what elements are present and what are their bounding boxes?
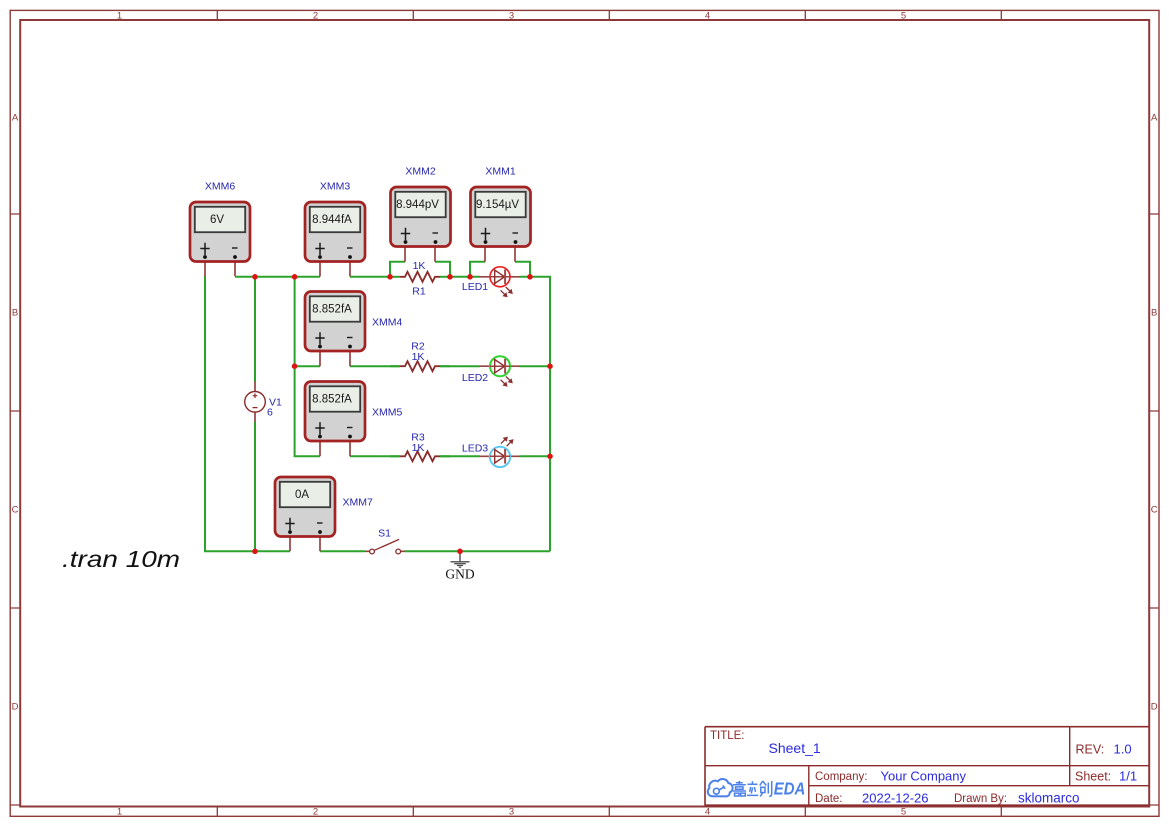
svg-text:B: B (12, 308, 18, 319)
multimeter XMM1 (471, 187, 531, 247)
svg-text:8.944pV: 8.944pV (396, 199, 439, 211)
svg-text:REV:: REV: (1076, 743, 1105, 757)
wire XMM2 plus loop (390, 262, 405, 277)
multimeter XMM5 (305, 382, 365, 442)
svg-text:LED1: LED1 (462, 281, 488, 293)
multimeter XMM4 (305, 292, 365, 352)
junction right bus / row3 (547, 454, 553, 460)
svg-text:3: 3 (509, 11, 514, 22)
junction LED1 right pin (527, 274, 533, 280)
wire XMM2 pins (405, 247, 435, 262)
wire XMM5 pins (320, 441, 350, 456)
resistor R3 (390, 451, 450, 461)
svg-text:C: C (1151, 505, 1158, 516)
svg-text:1.0: 1.0 (1114, 742, 1132, 757)
resistor R2 (390, 361, 450, 371)
svg-text:S1: S1 (378, 528, 391, 540)
wire top bus left (235, 276, 320, 278)
svg-text:1K: 1K (413, 260, 426, 272)
svg-text:TITLE:: TITLE: (710, 730, 745, 742)
svg-text:4: 4 (705, 807, 710, 818)
svg-text:XMM6: XMM6 (205, 181, 235, 193)
svg-text:5: 5 (901, 807, 906, 818)
wire bottom bus seg1 (255, 550, 290, 552)
svg-text:0A: 0A (295, 489, 309, 501)
junction GND / bottom bus (457, 549, 463, 555)
wire bottom bus seg2 (320, 550, 365, 552)
junction R1 right pin (447, 274, 453, 280)
svg-text:XMM7: XMM7 (343, 497, 373, 509)
svg-text:5: 5 (901, 11, 906, 22)
wire left rail (205, 276, 255, 552)
svg-text:LED2: LED2 (462, 372, 488, 384)
svg-text:D: D (12, 702, 19, 713)
svg-text:Sheet:: Sheet: (1075, 770, 1111, 784)
svg-text:sklomarco: sklomarco (1018, 791, 1080, 806)
wire mid rail (295, 277, 320, 457)
svg-text:3: 3 (509, 807, 514, 818)
wire top bus mid (350, 276, 390, 278)
svg-text:GND: GND (445, 567, 474, 582)
svg-text:4: 4 (705, 11, 710, 22)
svg-text:R1: R1 (412, 286, 426, 298)
svg-text:D: D (1151, 702, 1158, 713)
svg-text:6: 6 (267, 407, 273, 419)
svg-text:C: C (12, 505, 19, 516)
wire LED3 to bus (520, 455, 551, 457)
svg-text:A: A (12, 113, 19, 124)
svg-text:XMM4: XMM4 (372, 317, 402, 329)
svg-text:Drawn By:: Drawn By: (954, 793, 1007, 805)
wire row3 mid (350, 455, 400, 457)
junction V1 top / bus (252, 274, 258, 280)
junction mid rail / row2 (292, 363, 298, 369)
multimeter XMM6 (190, 202, 250, 262)
wire S1 pins (365, 550, 405, 552)
svg-text:B: B (1151, 308, 1157, 319)
svg-text:Company:: Company: (815, 771, 867, 783)
wire row2 left (295, 365, 320, 367)
wire XMM3 pins (320, 262, 350, 277)
wire XMM1 plus loop (470, 262, 485, 277)
svg-text:LED3: LED3 (462, 443, 488, 455)
wire LED3 pins (480, 455, 520, 457)
wire XMM1 minus loop (515, 262, 530, 277)
wire LED2 to bus (520, 365, 551, 367)
svg-text:Your Company: Your Company (881, 769, 967, 784)
wire row3 right (440, 455, 480, 457)
svg-text:9.154µV: 9.154µV (476, 199, 519, 211)
logo cloud (708, 779, 733, 796)
svg-text:.tran 10m: .tran 10m (62, 546, 180, 572)
junction V1 bottom / bottom bus (252, 549, 258, 555)
wire XMM2 minus loop (435, 262, 450, 277)
svg-text:Sheet_1: Sheet_1 (769, 740, 821, 756)
wire bottom bus seg3 (405, 550, 551, 552)
svg-text:8.852fA: 8.852fA (312, 304, 352, 316)
svg-text:XMM3: XMM3 (320, 181, 350, 193)
wire XMM1 pins (485, 247, 515, 262)
junction R1 left pin (387, 274, 393, 280)
svg-text:1: 1 (117, 11, 122, 22)
wire LED1 right to right bus (520, 277, 551, 552)
logo hanzi chuang (760, 781, 772, 797)
wire row2 mid (350, 365, 400, 367)
junction right bus / row2 (547, 363, 553, 369)
wire V1 top (254, 277, 256, 382)
svg-text:6V: 6V (210, 214, 224, 226)
svg-text:2: 2 (313, 11, 318, 22)
LED LED1 (490, 267, 512, 297)
logo hanzi li (747, 781, 758, 795)
LED LED2 (490, 356, 512, 386)
svg-text:1K: 1K (412, 442, 425, 454)
svg-text:2: 2 (313, 807, 318, 818)
wire row2 right (440, 365, 480, 367)
svg-text:1/1: 1/1 (1119, 769, 1137, 784)
logo hanzi jia (733, 781, 746, 796)
svg-text:XMM2: XMM2 (405, 166, 435, 178)
multimeter XMM2 (391, 187, 451, 247)
svg-text:XMM5: XMM5 (372, 407, 402, 419)
wire R1 right to LED1 left (450, 276, 480, 278)
wire XMM4 pins (320, 351, 350, 366)
junction mid rail / top bus (292, 274, 298, 280)
multimeter XMM7 (275, 477, 335, 537)
wire XMM7 pins (290, 537, 320, 552)
wire V1 bottom (254, 422, 256, 552)
svg-text:Date:: Date: (815, 793, 843, 805)
resistor R1 (390, 272, 450, 282)
LED LED3 (490, 437, 513, 467)
wire V1 pins (254, 382, 256, 422)
svg-text:1K: 1K (412, 351, 425, 363)
wire LED2 pins (480, 365, 520, 367)
svg-text:8.852fA: 8.852fA (312, 394, 352, 406)
junction LED1 left pin (467, 274, 473, 280)
svg-text:EDA: EDA (774, 778, 806, 798)
svg-text:8.944fA: 8.944fA (312, 214, 352, 226)
svg-text:A: A (1151, 113, 1158, 124)
svg-text:XMM1: XMM1 (485, 166, 515, 178)
svg-text:1: 1 (117, 807, 122, 818)
wire LED1 pins (480, 276, 520, 278)
svg-text:2022-12-26: 2022-12-26 (862, 791, 929, 806)
wire XMM6 pins (205, 262, 235, 277)
multimeter XMM3 (305, 202, 365, 262)
